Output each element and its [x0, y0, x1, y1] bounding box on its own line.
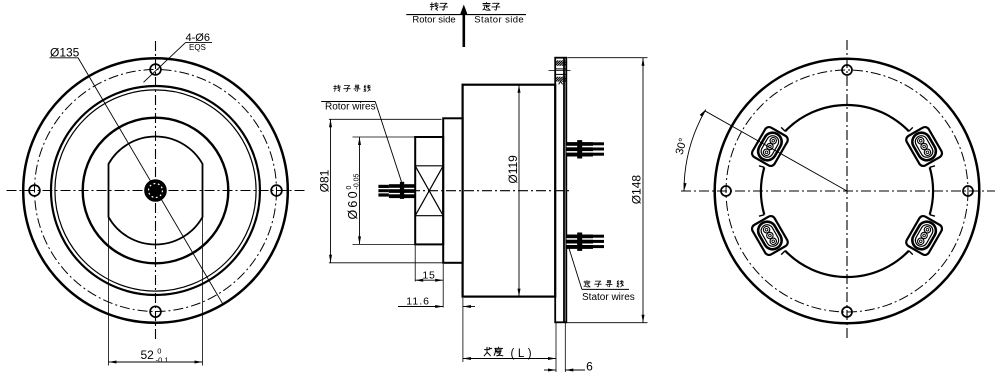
- screw centerline: [549, 70, 571, 72]
- dim D60 extension lines: [353, 137, 416, 244]
- right view horizontal centerline: [681, 190, 995, 192]
- dim D81 extension lines: [329, 119, 443, 262]
- mounting hole D6 left (right view): [721, 186, 731, 196]
- label Stator wires: [582, 289, 635, 303]
- left view vertical centerline: [155, 41, 157, 342]
- 30deg radial line: [705, 111, 847, 191]
- connector pod upper right: [905, 125, 944, 167]
- dim D60 text: [346, 173, 360, 219]
- mounting hole D6 top (right view): [842, 65, 852, 75]
- dim D148 dimension line: [642, 58, 645, 323]
- svg-text:-0.05: -0.05: [353, 173, 360, 189]
- stator housing circle (notched): [761, 105, 933, 277]
- label zh stator wires (定子导线): [584, 280, 623, 287]
- svg-text:0: 0: [157, 347, 161, 356]
- bolt circle D135 (left view): [35, 70, 277, 312]
- screw boss hatch top: [550, 60, 572, 66]
- mounting hole D6 left (left view): [29, 185, 40, 196]
- stator body D119 outline: [463, 85, 556, 297]
- stator wires upper bundle: [567, 140, 605, 158]
- svg-text:-0.1: -0.1: [156, 356, 169, 365]
- dim 15 extension lines: [415, 246, 443, 308]
- rotor flange D60 outline: [415, 137, 443, 244]
- stator wires lower bundle: [567, 233, 605, 251]
- screw boss hatch bottom: [551, 77, 570, 82]
- svg-text:EQS: EQS: [189, 43, 206, 52]
- dim 52 extension lines: [109, 218, 203, 366]
- dim L dimension line: [463, 357, 556, 360]
- dim D135 label: [50, 46, 80, 60]
- bolt circle D135 (right view): [726, 70, 968, 312]
- direction arrow up: [460, 5, 468, 48]
- rotor wire tips: [378, 185, 389, 197]
- svg-text:Ø148: Ø148: [629, 175, 643, 205]
- dim L label: [484, 347, 535, 360]
- connector pod upper left: [750, 125, 789, 167]
- flange circle D119 inner chamfer: [55, 90, 256, 291]
- outer circle D148 (right view): [715, 59, 980, 324]
- rotor/stator divider line: [406, 14, 526, 16]
- bearing cell lines: [415, 166, 443, 216]
- rotor wires leader line: [375, 102, 401, 182]
- dim 6 dimension line: [544, 369, 585, 372]
- 30deg angle arc: [684, 110, 706, 192]
- mounting hole D6 top (left view): [150, 64, 161, 75]
- housing notch steps: [759, 127, 935, 254]
- dim 11.6 dimension line: [398, 305, 475, 308]
- svg-text:52: 52: [141, 348, 155, 362]
- dim 6 extension line: [564, 323, 566, 372]
- flange inner edge line: [563, 58, 565, 322]
- svg-text:Rotor wires: Rotor wires: [325, 101, 376, 112]
- svg-text:15: 15: [422, 269, 435, 281]
- svg-text:Rotor side: Rotor side: [412, 15, 455, 26]
- mounting hole D6 bottom (left view): [150, 306, 161, 317]
- section centerline: [410, 190, 571, 192]
- mounting hole D6 right (left view): [271, 185, 282, 196]
- screw boss lines: [555, 69, 566, 75]
- label zh stator (定子): [483, 2, 500, 10]
- svg-text:0: 0: [346, 186, 353, 190]
- right view vertical centerline: [846, 40, 848, 341]
- stator hub D81 outline: [443, 118, 462, 262]
- dim D119 dimension line: [518, 85, 521, 297]
- dim D135 leader line: [78, 58, 223, 305]
- mounting flange D148 plate: [555, 58, 566, 323]
- dim D60 dimension line: [358, 137, 361, 244]
- svg-text:Ø60: Ø60: [346, 189, 360, 219]
- rotor wire clamp: [400, 182, 404, 199]
- rotor boss D60 with 52 flats: [109, 136, 203, 244]
- outer circle D148 (left view): [23, 58, 288, 323]
- svg-text:11.6: 11.6: [406, 296, 430, 308]
- dim D81 dimension line: [329, 119, 332, 262]
- label zh rotor (转子): [430, 3, 447, 11]
- label Rotor wires: [321, 101, 375, 112]
- dim L extension lines: [463, 298, 556, 372]
- center shaft hub (filled): [145, 180, 167, 202]
- connector pod lower right: [905, 214, 944, 256]
- dim 4-D6 label: [186, 32, 213, 52]
- dim 52 0/-0.1 text: [141, 347, 169, 365]
- dim 52 dimension line: [109, 361, 203, 364]
- svg-text:(L): (L): [511, 348, 536, 360]
- dim D148 extension lines: [567, 58, 648, 323]
- circle D81 (left view): [83, 118, 229, 264]
- dim 15 dimension line: [415, 279, 443, 282]
- dim 4-D6 leader line: [144, 43, 186, 83]
- rotor wire bundle block: [389, 184, 415, 198]
- svg-text:Ø81: Ø81: [317, 169, 331, 192]
- screw slot notch: [559, 81, 563, 84]
- mounting hole D6 bottom (right view): [842, 307, 852, 317]
- mounting hole D6 right (right view): [963, 186, 973, 196]
- left view horizontal centerline: [7, 190, 306, 192]
- svg-text:Stator side: Stator side: [474, 15, 524, 26]
- label zh rotor wires (转子导线): [334, 85, 371, 92]
- svg-text:Ø119: Ø119: [506, 155, 520, 184]
- svg-text:6: 6: [586, 360, 593, 374]
- stator wires leader line: [569, 248, 582, 289]
- svg-text:Stator wires: Stator wires: [582, 292, 635, 303]
- connector pod lower left: [750, 214, 789, 256]
- bearing cross X: [415, 166, 443, 216]
- flange circle D119 outer: [51, 86, 260, 295]
